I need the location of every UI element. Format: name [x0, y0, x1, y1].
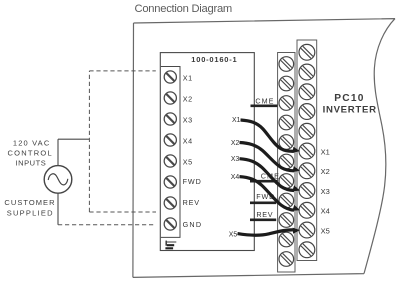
inverter outer terminal screw row 5 — [299, 123, 315, 139]
enclosure box (torn right edge) — [133, 19, 395, 278]
terminal screw FWD (100-0160-1 strip) — [164, 176, 176, 188]
inverter inner terminal screw row 5 — [279, 135, 294, 150]
AC source G1 (120 VAC) circle — [44, 166, 72, 194]
svg-text:X4: X4 — [321, 207, 330, 216]
svg-text:X2: X2 — [321, 167, 330, 176]
wire REV — [250, 219, 276, 222]
thick wire X2 — [240, 143, 295, 171]
wire dashed to terminal X1 row — [89, 70, 155, 72]
wire from source bottom — [57, 193, 59, 225]
wire source top to dashed bus — [58, 138, 89, 140]
svg-text:X3: X3 — [231, 156, 240, 163]
svg-text:X3: X3 — [183, 116, 193, 125]
inverter inner terminal screw row 11 — [279, 252, 294, 267]
svg-text:REV: REV — [256, 210, 273, 219]
svg-text:CUSTOMER: CUSTOMER — [4, 198, 55, 207]
terminal screw X1 (100-0160-1 strip) — [164, 71, 176, 83]
thick wire X3 — [240, 159, 295, 191]
svg-text:Connection Diagram: Connection Diagram — [135, 3, 232, 15]
inverter outer terminal screw row 1 — [299, 44, 315, 60]
inverter inner terminal screw row 7 (CME lower) — [279, 174, 294, 189]
svg-text:SUPPLIED: SUPPLIED — [7, 209, 54, 218]
inverter inner terminal screw row 4 — [279, 115, 294, 130]
inverter inner terminal screw row 2 — [279, 76, 294, 91]
svg-text:INVERTER: INVERTER — [323, 105, 377, 116]
terminal screw X2 (100-0160-1 strip) — [164, 92, 176, 104]
left terminal strip rect — [161, 67, 180, 238]
svg-text:120 VAC: 120 VAC — [13, 138, 51, 147]
wire dashed to terminal REV row — [89, 211, 156, 213]
inner box 100-0160-1 — [160, 53, 254, 251]
svg-text:X1: X1 — [232, 117, 241, 124]
inverter inner terminal screw row 8 (FWD) — [279, 193, 294, 208]
inverter inner terminal screw row 1 — [279, 57, 294, 72]
svg-text:X4: X4 — [231, 174, 240, 181]
inverter outer terminal screw row 10 (X5) — [299, 222, 315, 238]
terminal column 2 (inverter outer) — [297, 40, 317, 261]
120 VAC CONTROL INPUTS text — [8, 138, 53, 167]
terminal screw REV (100-0160-1 strip) — [164, 197, 176, 209]
wire CME lower — [250, 180, 277, 183]
wire CME — [251, 105, 278, 108]
thick wire X5 — [238, 230, 294, 235]
svg-text:FWD: FWD — [183, 177, 202, 186]
inverter outer terminal screw row 6 (X1) — [299, 143, 315, 159]
terminal screw GND (100-0160-1 strip) — [164, 218, 176, 230]
svg-text:REV: REV — [183, 198, 200, 207]
CUSTOMER SUPPLIED text — [4, 198, 55, 217]
terminal screw X4 (100-0160-1 strip) — [164, 134, 176, 146]
svg-text:X2: X2 — [231, 140, 240, 147]
inverter inner terminal screw row 10 — [279, 232, 294, 247]
svg-text:X1: X1 — [321, 147, 330, 156]
svg-text:X3: X3 — [321, 187, 330, 196]
svg-text:INPUTS: INPUTS — [16, 159, 47, 168]
svg-text:CONTROL: CONTROL — [8, 149, 53, 158]
ground symbol (chassis) under strip — [165, 241, 167, 246]
inverter outer terminal screw row 3 — [299, 84, 315, 100]
wire from source top — [57, 139, 59, 165]
inverter outer terminal screw row 9 (X4) — [299, 202, 315, 218]
inverter inner terminal screw row 3 (CME) — [279, 96, 294, 111]
thick wire X1 — [241, 120, 295, 151]
inverter inner terminal screw row 6 — [279, 154, 294, 169]
svg-text:X2: X2 — [183, 95, 193, 104]
terminal screw X3 (100-0160-1 strip) — [164, 113, 176, 125]
AC source sine wave symbol — [48, 174, 68, 185]
inverter outer terminal screw row 7 (X2) — [299, 163, 315, 179]
inverter outer terminal screw row 11 — [299, 242, 315, 258]
inverter outer terminal screw row 8 (X3) — [299, 183, 315, 199]
inverter outer terminal screw row 4 — [299, 104, 315, 120]
inverter inner terminal screw row 9 (REV) — [279, 213, 294, 228]
svg-text:GND: GND — [183, 220, 203, 229]
svg-text:CME: CME — [255, 96, 274, 105]
svg-text:X5: X5 — [321, 226, 330, 235]
terminal screw X5 (100-0160-1 strip) — [164, 155, 176, 167]
svg-text:PC10: PC10 — [334, 93, 364, 104]
wire FWD — [250, 202, 276, 205]
svg-text:100-0160-1: 100-0160-1 — [191, 55, 237, 64]
wire dashed vertical bus (customer supplied) — [88, 71, 90, 212]
wire dashed from source to GND row — [58, 224, 156, 226]
thick wire X4 — [240, 177, 295, 211]
svg-text:X5: X5 — [183, 158, 193, 167]
terminal column 1 (inverter inner) — [278, 53, 295, 273]
svg-text:X4: X4 — [183, 137, 193, 146]
svg-text:X1: X1 — [183, 74, 193, 83]
svg-text:X5: X5 — [229, 231, 238, 238]
inverter outer terminal screw row 2 — [299, 64, 315, 80]
